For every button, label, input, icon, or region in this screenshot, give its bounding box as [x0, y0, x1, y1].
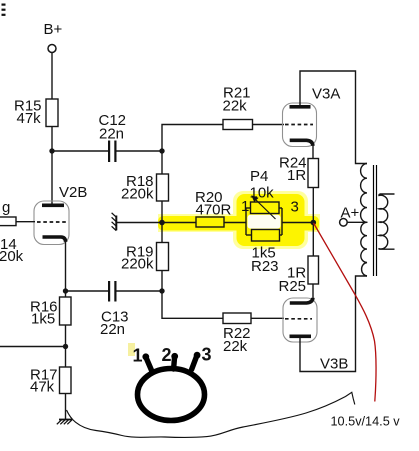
svg-text:47k: 47k [17, 110, 42, 127]
label R15 47k [14, 98, 42, 128]
V3A cathode with hook [290, 140, 313, 146]
node P4/R24/R25 [311, 220, 317, 226]
freehand pencil line [67, 392, 355, 437]
svg-text:22k: 22k [223, 338, 248, 355]
resistor R20 [196, 217, 224, 227]
wire R21 to V3A grid [253, 124, 285, 126]
resistor R16 [60, 297, 72, 325]
capacitor C13 [108, 281, 117, 302]
highlighter outer glow [158, 191, 320, 249]
triode V3B envelope [283, 298, 317, 342]
wire node to C13 [66, 290, 109, 292]
ground [57, 420, 72, 425]
label C12 22n [99, 112, 127, 143]
wire C12 to node [117, 150, 163, 152]
svg-text:2: 2 [162, 345, 172, 365]
V3A cathode lead [312, 144, 314, 159]
label R24 1R [279, 155, 307, 185]
label 1k5 R23 [251, 245, 279, 276]
V3B plate lead to transformer [300, 276, 367, 372]
wire R17 to ground [65, 394, 67, 420]
wire mid node down to R19 [161, 223, 163, 243]
V2B cathode with hook [43, 237, 66, 242]
wire R22 to V3B grid [251, 317, 284, 319]
svg-text:P4: P4 [250, 168, 268, 185]
label R17 47k [30, 367, 58, 396]
resistor R15 [46, 99, 58, 127]
transformer core [374, 165, 377, 276]
resistor R21 [223, 120, 253, 130]
resistor R25 [308, 256, 319, 284]
svg-text:1: 1 [241, 198, 249, 215]
svg-text:1k5: 1k5 [31, 311, 55, 328]
svg-text:R25: R25 [279, 278, 307, 295]
V2B plate [42, 204, 64, 208]
svg-text:22n: 22n [100, 321, 125, 338]
terminal A+ [340, 219, 348, 227]
resistor R23 [246, 208, 282, 241]
transformer primary winding [361, 164, 367, 277]
svg-text:R23: R23 [251, 258, 279, 275]
label R16 1k5 [30, 299, 58, 328]
svg-text:20k: 20k [0, 248, 24, 265]
node C12/R18/R21 [159, 148, 164, 153]
transformer secondary winding [379, 194, 395, 249]
svg-text:22n: 22n [99, 126, 124, 143]
label R18 220k [121, 173, 154, 203]
svg-text:B+: B+ [44, 21, 63, 38]
svg-text:A+: A+ [341, 205, 360, 222]
wire R20 to P4 [224, 222, 246, 224]
wire node to R20 [162, 222, 196, 224]
node R18/R19/R20 [159, 220, 165, 226]
dashed fragment (cropped symbol, top-left) [2, 4, 6, 16]
wire B+ to R15 [51, 53, 53, 99]
doodle pin 1 [146, 357, 152, 371]
wire hatch to mid node [117, 222, 162, 224]
wire R19 to lower node [161, 271, 163, 292]
V3B grid (dashed) [285, 318, 312, 320]
svg-text:220k: 220k [121, 256, 154, 273]
highlighter yellow band [158, 194, 319, 246]
svg-text:10.5v/14.5 v: 10.5v/14.5 v [331, 414, 401, 428]
triode V2B envelope [34, 201, 69, 245]
svg-text:3: 3 [202, 345, 212, 365]
V3A grid (dashed) [285, 124, 313, 126]
V3A plate lead to transformer [300, 71, 367, 164]
V3B cathode with hook (up) [290, 298, 313, 303]
label 1R R25 [279, 265, 307, 296]
terminal B+ [48, 45, 56, 53]
wire node to C12 [52, 150, 108, 152]
svg-text:V2B: V2B [59, 184, 87, 201]
node R16/R17/left rail [63, 344, 68, 349]
wire A+ tap [347, 221, 367, 223]
wire P4 to cathode node [282, 222, 313, 224]
wire R18 to mid node [161, 201, 163, 223]
resistor R18 [157, 174, 169, 201]
resistor R19 [157, 243, 169, 271]
label R19 220k [121, 244, 154, 273]
break/hatch symbol at mid rail [112, 213, 117, 231]
V3B plate [290, 335, 312, 339]
wire node down and right to R22 [162, 291, 223, 318]
wire R25 to V3B cathode [312, 284, 314, 299]
V2B grid (dashed) [37, 221, 66, 223]
wire node down to R18 [161, 151, 163, 174]
potentiometer P4 [246, 195, 282, 235]
svg-text:47k: 47k [30, 379, 55, 396]
resistor R14 (cropped at left edge) [0, 217, 16, 226]
wire left rail [0, 346, 66, 348]
label R21 22k [223, 85, 251, 115]
svg-text:22k: 22k [223, 98, 248, 115]
svg-text:V3A: V3A [312, 86, 340, 103]
wire node up and right to R21 [162, 125, 223, 152]
doodle pin 3 [192, 356, 197, 370]
node cathode/C13 [63, 288, 68, 293]
svg-text:1: 1 [133, 346, 143, 366]
resistor R24 [308, 159, 319, 188]
doodle tube bulb [138, 369, 205, 421]
label R22 22k [223, 325, 251, 355]
highlighter gap inside P4 block [248, 215, 281, 229]
label P4 10k [250, 168, 275, 202]
svg-text:470R: 470R [196, 202, 232, 219]
svg-text:220k: 220k [121, 186, 154, 203]
node C13/R19/R22 [159, 288, 164, 293]
svg-text:V3B: V3B [320, 356, 348, 373]
svg-text:3: 3 [291, 199, 299, 216]
V3A plate [290, 105, 311, 109]
wire R24 to R25 [312, 188, 314, 257]
doodle pin 2 [174, 357, 175, 370]
wire C13 to node [117, 290, 163, 292]
svg-text:g: g [2, 199, 10, 216]
resistor R22 [223, 313, 251, 324]
V2B cathode lead [65, 240, 67, 291]
node at R15/C12 [49, 148, 54, 153]
red probe trace [314, 223, 377, 402]
wire node down to R16 [65, 291, 67, 297]
resistor R17 [60, 367, 72, 394]
label C13 22n [100, 309, 129, 339]
V2B grid lead [16, 221, 35, 223]
svg-text:10k: 10k [250, 185, 275, 202]
highlighter smudge near doodle pin 1 [128, 343, 135, 356]
wire R16 to node [65, 325, 67, 367]
capacitor C12 [108, 141, 117, 163]
label R20 470R [195, 189, 232, 219]
triode V3A envelope [283, 103, 317, 147]
svg-text:1R: 1R [287, 167, 306, 184]
wire R15 to node [51, 127, 53, 204]
